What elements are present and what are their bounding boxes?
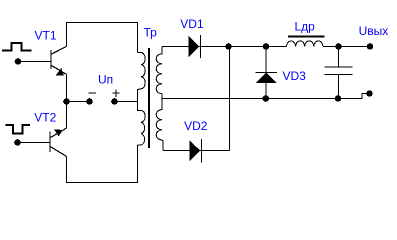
- svg-text:Uвых: Uвых: [359, 24, 389, 38]
- svg-text:VD1: VD1: [180, 17, 204, 31]
- svg-text:Uп: Uп: [98, 73, 113, 87]
- svg-text:Тр: Тр: [144, 26, 158, 40]
- svg-text:VD3: VD3: [283, 69, 307, 83]
- svg-text:VD2: VD2: [184, 119, 208, 133]
- svg-text:Lдр: Lдр: [295, 19, 316, 33]
- svg-text:VT1: VT1: [35, 29, 57, 43]
- svg-text:VT2: VT2: [34, 111, 56, 125]
